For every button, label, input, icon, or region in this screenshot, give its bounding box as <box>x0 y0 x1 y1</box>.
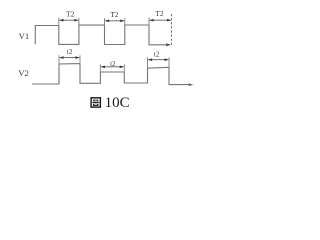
caption CJK character tu (figure) drawn as glyph <box>91 98 100 107</box>
wire extension above rising edge x=100.4 <box>99 64 101 72</box>
wire dashed reference line <box>171 14 173 47</box>
wire extension above rising edge x=78.9 <box>78 18 80 26</box>
wire extension above falling edge x=58.8 <box>58 18 60 26</box>
svg-text:t2: t2 <box>154 51 160 59</box>
wire extension above falling edge x=104.5 <box>104 18 106 25</box>
dimension arrow T2 third <box>149 19 172 22</box>
wire extension above falling edge x=149 <box>148 18 150 25</box>
wire extension above falling edge x=80 <box>79 55 81 63</box>
dimension arrow t2 second <box>100 66 124 69</box>
svg-text:V1: V1 <box>19 31 30 41</box>
svg-text:T2: T2 <box>155 9 164 18</box>
wire extension above rising edge x=59 <box>58 55 60 64</box>
wire V1 waveform <box>35 25 167 45</box>
wire extension above rising edge x=147.5 <box>147 57 149 68</box>
svg-text:V2: V2 <box>18 68 29 78</box>
wire extension above falling edge x=124.3 <box>123 64 125 72</box>
svg-text:t2: t2 <box>67 48 73 56</box>
node V1 end arrow <box>166 43 171 46</box>
dimension arrow T2 second <box>105 20 125 23</box>
dimension arrow t2 third <box>148 58 170 61</box>
wire V2 waveform <box>32 64 190 85</box>
dimension arrow t2 first <box>59 56 80 59</box>
wire extension above falling edge x=169 <box>168 57 170 67</box>
svg-text:10C: 10C <box>105 95 130 111</box>
wire extension above rising edge x=124.8 <box>124 18 126 25</box>
svg-text:T2: T2 <box>66 9 75 18</box>
svg-text:T2: T2 <box>110 10 119 19</box>
svg-text:t2: t2 <box>110 60 116 68</box>
node V2 end arrow <box>189 83 194 86</box>
dimension arrow T2 first <box>59 19 79 22</box>
